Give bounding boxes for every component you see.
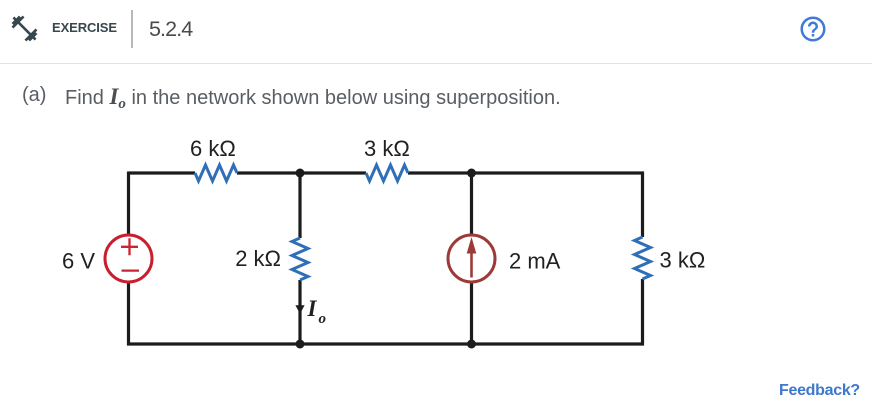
label 6 kOhm [190,136,236,161]
wire: left branch upper [127,172,130,236]
resistor R4 3 kOhm right vertical zigzag [635,237,651,279]
voltage source V1 minus sign [122,269,140,271]
help icon [798,14,828,44]
junction node top current-source [467,169,476,178]
header bar [0,0,872,64]
svg-text:o: o [319,311,327,327]
resistor R2 3 kOhm top zigzag [366,165,408,181]
voltage source V1 plus sign [121,238,138,255]
header divider [131,10,133,48]
resistor R3 2 kOhm vertical zigzag [292,238,308,280]
wire: current source branch lower [470,282,473,344]
svg-text:3 kΩ: 3 kΩ [660,248,706,273]
wire: middle 2k branch upper [298,173,301,238]
wire: top left segment [129,171,196,174]
exercise number 5.2.4 [149,17,192,42]
junction node top middle [296,169,305,178]
wire: middle 2k branch lower [298,280,301,344]
junction node bottom middle [296,340,305,349]
wire: right branch lower [641,279,644,346]
wire: top right segment [408,171,644,174]
question text [0,84,872,108]
current source I1 arrow [467,237,477,278]
exercise dumbbell icon [9,13,40,44]
junction node bottom current-source [467,340,476,349]
svg-text:2 kΩ: 2 kΩ [235,246,281,271]
Io arrowhead on 2k branch [295,305,304,314]
EXERCISE label [52,20,117,35]
wire: left branch lower [127,282,130,346]
wire: right branch upper [641,172,644,238]
svg-text:6 V: 6 V [62,249,95,274]
label 6 V [62,249,95,274]
svg-text:2 mA: 2 mA [509,249,561,274]
label 2 kOhm [235,246,281,271]
svg-text:3 kΩ: 3 kΩ [364,136,410,161]
wire: top middle segment [237,171,366,174]
voltage source V1 circle [105,235,152,282]
label 2 mA [509,249,561,274]
resistor R1 6 kOhm zigzag [195,165,237,181]
label Io [307,296,327,327]
label 3 kOhm right [660,248,706,273]
wire: bottom [127,342,644,345]
current source I1 circle [448,235,495,282]
label 3 kOhm top [364,136,410,161]
feedback link [779,382,860,400]
svg-text:6 kΩ: 6 kΩ [190,136,236,161]
wire: current source branch upper [470,173,473,235]
svg-text:I: I [307,296,318,321]
